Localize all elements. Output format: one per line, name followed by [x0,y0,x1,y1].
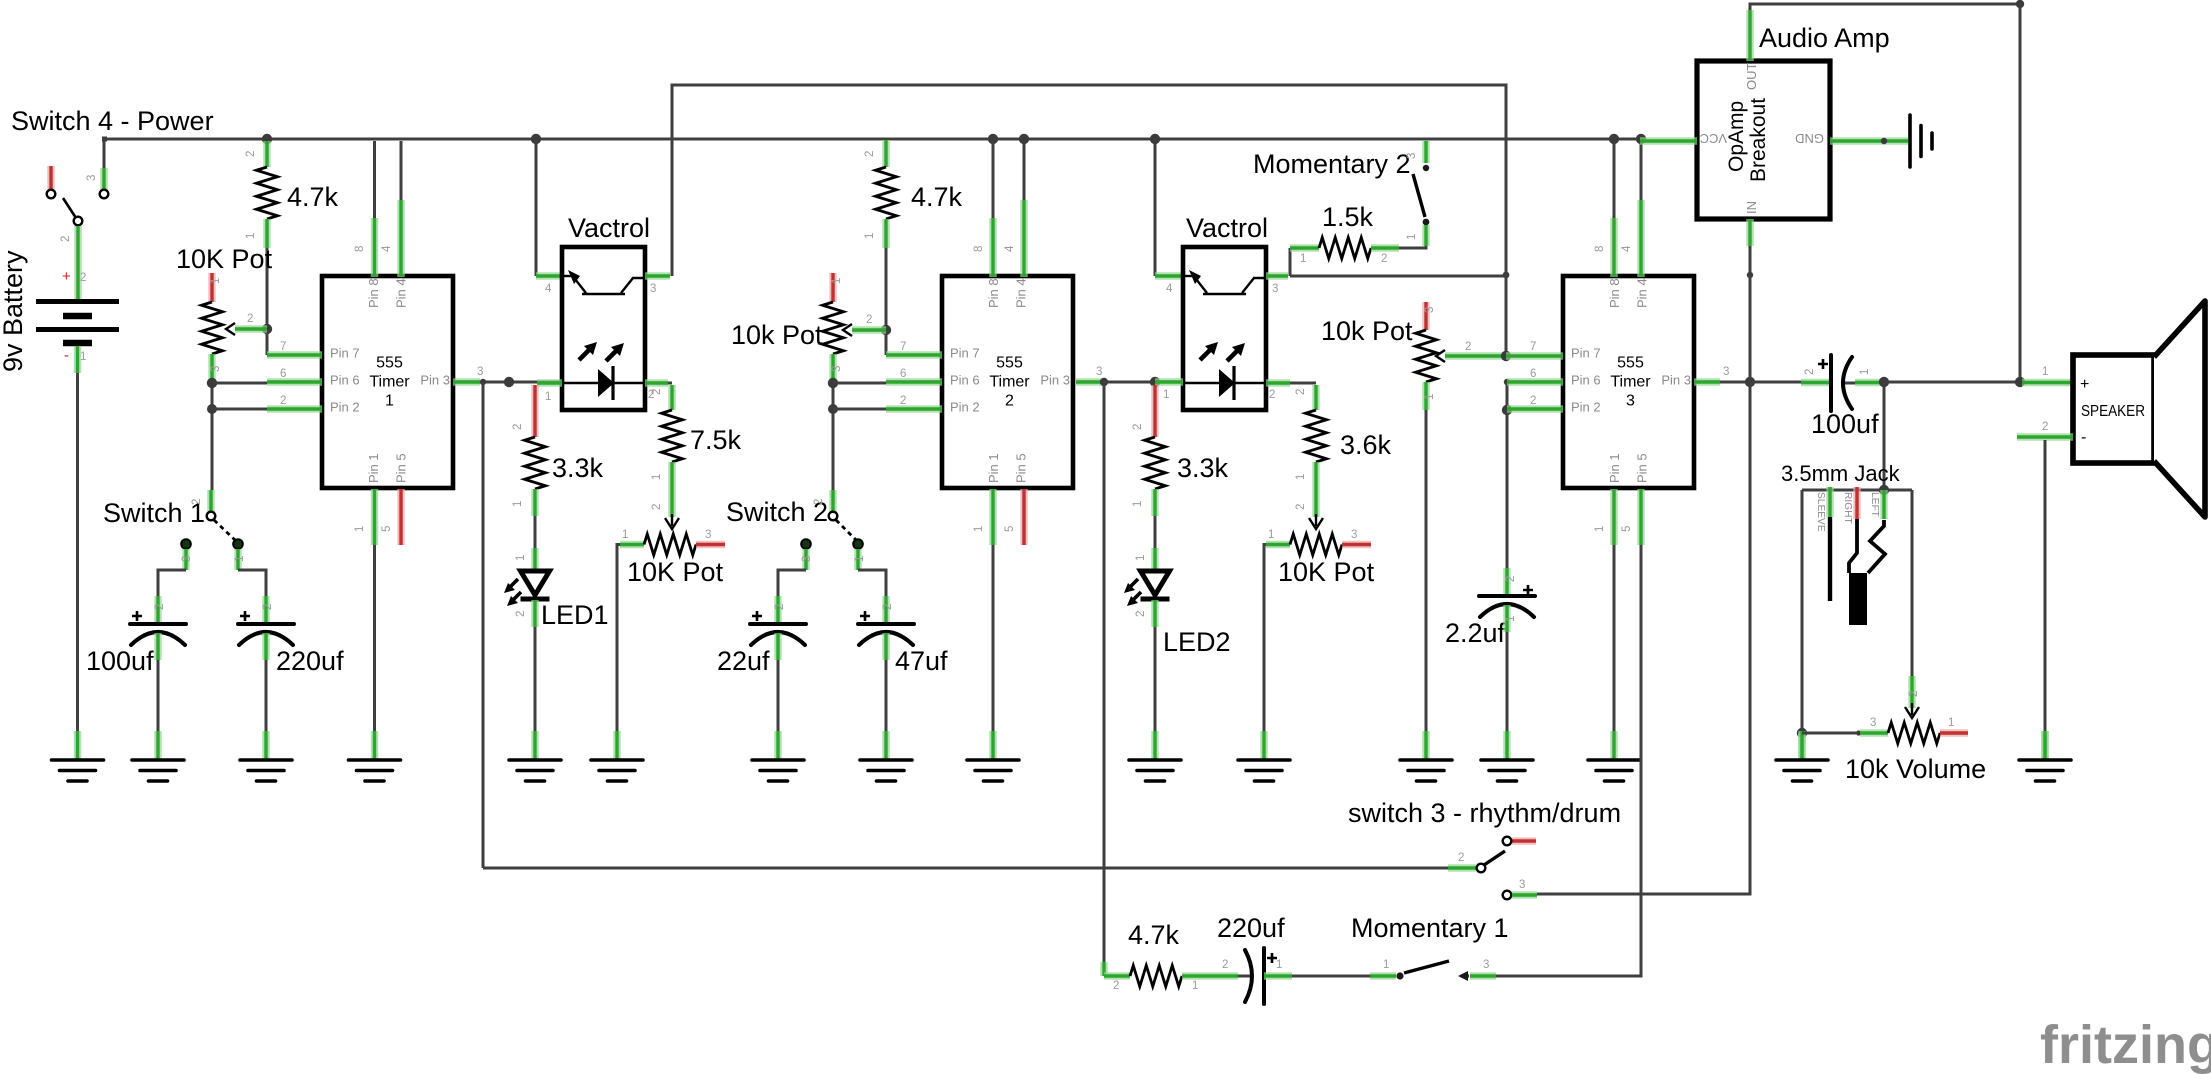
LED LED2 symbol [1124,571,1170,606]
pin timer3 pin5 to momentary1 [1637,489,1645,545]
wire to pin2 [212,408,267,411]
node rail timer3 pin4 [1636,134,1646,144]
svg-text:Pin 4: Pin 4 [1014,278,1029,308]
svg-text:Pin 1: Pin 1 [986,453,1001,483]
svg-text:1: 1 [973,526,985,532]
wire jack bus [1802,489,1912,492]
LED LED1 symbol [504,571,550,606]
svg-text:2: 2 [80,272,86,284]
wire P4 pin1 to ground [1264,545,1266,732]
svg-text:47uf: 47uf [895,646,948,676]
svg-text:2: 2 [864,151,876,157]
svg-text:3: 3 [1483,959,1489,971]
svg-text:+: + [62,268,71,285]
wiper P3 [843,324,852,336]
pin timer1 pin5 unconnected [397,489,405,545]
wire sleeve to ground node [1801,490,1804,733]
svg-text:3: 3 [210,366,222,372]
svg-text:4: 4 [1621,245,1633,252]
svg-text:VCC: VCC [1700,131,1727,146]
svg-text:1.5k: 1.5k [1322,202,1374,232]
wire timer3 pin5 down to momentary1 [1496,545,1641,976]
svg-text:8: 8 [354,246,366,252]
wire to timer1 pin7 [266,329,269,355]
node rail timer3 pin8 [1609,134,1619,144]
capacitor C2 plates [238,611,294,645]
wire LED1 to ground [534,627,537,731]
resistor P2 zigzag [644,534,696,555]
wire switch1 to C1 [158,570,186,596]
svg-text:2: 2 [651,504,663,510]
svg-text:3: 3 [1626,393,1635,410]
svg-text:Pin 8: Pin 8 [1607,278,1622,308]
wire vactrol2 pin4 to rail [1150,134,1160,144]
wiper P5 [1436,350,1445,362]
svg-text:2: 2 [1381,253,1387,265]
ground timer3 pin1 [1588,731,1640,781]
svg-text:Switch 1: Switch 1 [103,498,205,528]
wire switch2 to C4 [858,570,886,596]
capacitor C1 100uf [154,596,162,623]
resistor R4 4.7k [882,140,890,167]
svg-text:6: 6 [280,368,286,380]
svg-text:8: 8 [973,246,985,252]
wire timer2 pin3 to vactrol2 [1104,381,1155,384]
svg-text:2: 2 [262,604,274,610]
svg-text:Vactrol: Vactrol [568,213,650,243]
svg-text:IN: IN [1744,201,1759,214]
wire timer3 pin6-pin2-cap chain [1504,379,1510,385]
ground P2 [591,731,643,781]
svg-text:10k Pot: 10k Pot [731,320,823,350]
pin jack RIGHT [1853,487,1861,519]
node speaker plus [2015,377,2025,387]
svg-text:3: 3 [477,366,483,378]
svg-text:Pin 7: Pin 7 [330,346,360,361]
svg-text:1: 1 [1135,555,1147,561]
pin opamp OUT wire to speaker [1746,10,1754,61]
wire R1 to pot wiper node [266,248,269,329]
svg-text:1: 1 [1859,369,1871,375]
svg-text:10k Volume: 10k Volume [1845,754,1986,784]
node timer1 pin2 junction [207,404,217,414]
svg-text:1: 1 [1163,389,1169,401]
svg-text:2: 2 [1465,341,1471,353]
wire to pin6 [833,382,886,385]
wire pin3 to vactrol1 [480,381,563,384]
pin timer2 pin7 [886,351,942,359]
svg-text:1: 1 [1268,529,1274,541]
op-amp U3 555 Timer 3 [1563,276,1694,488]
pin timer1 pin1 to ground [371,489,379,545]
svg-text:1: 1 [864,233,876,239]
svg-text:2: 2 [651,389,663,395]
wire switch1 to C2 [238,570,266,596]
potentiometer P4 10K Pot [1266,541,1290,549]
svg-text:Timer: Timer [1610,374,1651,391]
svg-text:220uf: 220uf [276,646,344,676]
wire vactrol1 pin2 corner [668,382,672,385]
ground opamp rotated [1910,115,1932,167]
svg-text:Momentary 2: Momentary 2 [1253,149,1411,179]
wire to volume pin3 [1802,732,1856,735]
capacitor C5 2.2uf [1503,568,1511,595]
ground LED2 [1129,731,1181,781]
jack plug body [1849,573,1867,625]
svg-text:2: 2 [247,313,253,325]
wire pot1 node to timer1 pin6/pin2/switch1 [211,383,214,490]
svg-text:Breakout: Breakout [1747,98,1770,182]
svg-text:2: 2 [813,499,825,505]
svg-text:2: 2 [1135,611,1147,617]
svg-text:10k Pot: 10k Pot [1321,316,1413,346]
wire top signal bus vactrol1 pin3 to timer3 [672,85,1506,276]
svg-text:5: 5 [1004,526,1016,532]
svg-text:1: 1 [1300,253,1306,265]
wire timer2 pin3 down to R8 [1103,382,1106,962]
pin timer3 pin1 to ground [1610,489,1618,545]
svg-text:4: 4 [545,283,552,295]
svg-text:1: 1 [245,233,257,239]
svg-text:Pin 6: Pin 6 [330,373,360,388]
svg-text:LEFT: LEFT [1869,492,1880,517]
svg-text:GND: GND [1795,131,1824,146]
svg-text:Pin 5: Pin 5 [394,453,409,483]
svg-text:SPEAKER: SPEAKER [2081,403,2145,420]
svg-text:5: 5 [381,526,393,532]
ground timer2 pin1 [967,731,1019,781]
svg-text:1: 1 [831,278,843,284]
svg-text:100uf: 100uf [1811,409,1879,439]
svg-text:Momentary 1: Momentary 1 [1351,913,1509,943]
svg-text:2: 2 [1222,959,1228,971]
svg-text:Switch 4 - Power: Switch 4 - Power [11,106,214,136]
ground C2 [240,731,292,781]
ground C3 [752,731,804,781]
wire C5 to ground [1506,632,1509,731]
svg-text:1: 1 [622,529,628,541]
pin speaker minus [2017,433,2073,441]
node timer2 pin2 junction [828,404,838,414]
svg-text:2: 2 [1269,389,1275,401]
svg-text:3.6k: 3.6k [1340,430,1392,460]
svg-text:3: 3 [801,556,813,562]
svg-text:6: 6 [1530,368,1536,380]
svg-text:3: 3 [650,283,656,295]
ground C1 [132,731,184,781]
svg-text:10K Pot: 10K Pot [1278,557,1375,587]
svg-text:OpAmp: OpAmp [1725,101,1748,172]
svg-text:9v Battery: 9v Battery [0,250,28,372]
pin timer3 pin3 output [1694,378,1720,386]
svg-text:2: 2 [191,499,203,505]
speaker SPK1 [2022,379,2073,387]
wire R5 to momentary2 [1399,246,1426,248]
capacitor C3 plates [750,611,806,645]
ground C5 [1481,731,1533,781]
svg-text:4.7k: 4.7k [287,182,339,212]
svg-text:3: 3 [1723,366,1729,378]
wire IN down [1749,246,1752,275]
resistor P5 zigzag [1416,330,1437,382]
svg-text:2: 2 [1295,389,1307,395]
wire switch2 to C3 [778,570,806,596]
node jack junction [1879,485,1889,495]
ground battery [52,731,104,781]
svg-text:RIGHT: RIGHT [1842,492,1853,524]
wire IN to output node [1749,275,1752,382]
node rail junction R1 [262,134,272,144]
svg-text:2: 2 [1295,504,1307,510]
svg-text:1: 1 [354,526,366,532]
pin timer3 pin2 [1507,405,1563,413]
capacitor C2 220uf [262,596,270,623]
ground jack [1776,731,1828,781]
wire P5 to ground [1425,410,1428,731]
svg-text:2: 2 [154,604,166,610]
node timer2 pin6 junction [828,378,838,388]
svg-text:Vactrol: Vactrol [1186,213,1268,243]
pin jack LEFT [1880,490,1888,519]
svg-text:1: 1 [1406,234,1418,240]
ground speaker [2019,731,2071,781]
pin timer1 pin7 [267,351,322,359]
svg-text:4: 4 [381,245,393,252]
svg-text:Pin 1: Pin 1 [366,453,381,483]
potentiometer P6 10k Volume [1856,730,1861,735]
wiper arrow to pot P4 [1312,490,1320,517]
wire to speaker [1884,381,2020,384]
pin vactrol1 pin1 [537,379,562,387]
wire battery plus [74,252,82,299]
svg-text:switch 3 - rhythm/drum: switch 3 - rhythm/drum [1348,798,1621,828]
svg-text:Pin 3: Pin 3 [1661,373,1691,388]
svg-text:5: 5 [1621,526,1633,532]
node timer1 pin6 junction [207,378,217,388]
svg-text:fritzing: fritzing [2040,1015,2211,1074]
svg-text:3: 3 [1351,529,1357,541]
svg-text:100uf: 100uf [86,646,154,676]
svg-text:Pin 6: Pin 6 [1571,373,1601,388]
wire to pin2 [833,408,886,411]
svg-text:Pin 1: Pin 1 [1607,453,1622,483]
pin timer2 pin1 to ground [989,489,997,545]
capacitor C5 plates [1479,585,1535,617]
LED1 [531,548,539,571]
wire R4 to wiper node [885,248,888,330]
wire to timer2 pin7 [885,330,888,355]
node out corner [2016,0,2024,8]
pin opamp IN [1746,219,1754,246]
svg-text:Timer: Timer [369,374,410,391]
node timer3 pin2 junction [1502,405,1512,415]
svg-text:Pin 5: Pin 5 [1014,453,1029,483]
wire battery minus to ground [74,346,82,373]
node wiper junction 2 [881,325,891,335]
svg-text:1: 1 [651,474,663,480]
svg-text:Pin 6: Pin 6 [950,373,980,388]
svg-text:1: 1 [1192,980,1198,992]
svg-text:Pin 8: Pin 8 [366,278,381,308]
pin opamp VCC to rail [1640,137,1697,145]
resistor R3 zigzag [662,410,683,462]
svg-text:3: 3 [181,556,193,562]
svg-text:1: 1 [2042,366,2048,378]
wire vactrol1 pin4 to rail [531,134,541,144]
svg-text:7.5k: 7.5k [690,425,742,455]
wire C2 to ground [265,660,268,731]
svg-text:3: 3 [1096,366,1102,378]
svg-text:Pin 3: Pin 3 [1040,373,1070,388]
wire LED2 to ground [1154,627,1157,731]
svg-text:10K Pot: 10K Pot [627,557,724,587]
svg-text:1: 1 [545,391,551,403]
wire vactrol2 pin3 node [1290,275,1506,278]
svg-text:2: 2 [1132,424,1144,430]
svg-text:4: 4 [1166,283,1173,295]
svg-text:1: 1 [1424,394,1436,400]
svg-text:1: 1 [1505,616,1517,622]
wire C7 to momentary1 [1292,975,1370,978]
svg-text:Pin 4: Pin 4 [394,278,409,308]
ground C4 [860,731,912,781]
svg-text:7: 7 [1530,341,1536,353]
svg-text:Pin 7: Pin 7 [950,346,980,361]
wire R2 to LED1 [534,516,537,548]
svg-text:3.3k: 3.3k [552,453,604,483]
svg-text:555: 555 [1617,355,1644,372]
svg-text:555: 555 [376,355,403,372]
wire out down to speaker [2019,4,2022,382]
svg-text:2: 2 [866,314,872,326]
svg-text:Pin 8: Pin 8 [986,278,1001,308]
switch S4 power [47,166,55,189]
svg-text:1: 1 [1594,526,1606,532]
svg-text:2: 2 [1804,369,1816,375]
wire output node to jack [1883,382,1886,490]
svg-text:1: 1 [1132,501,1144,507]
svg-text:3.5mm Jack: 3.5mm Jack [1781,461,1901,486]
wire timer1 pin3 down to switch3 throw2 line [482,382,485,868]
pin timer2 pin2 [886,405,942,413]
svg-text:Pin 3: Pin 3 [420,373,450,388]
resistor R2 zigzag [525,437,546,489]
node volume ground [1797,728,1807,738]
svg-text:8: 8 [1594,246,1606,252]
LED2 [1151,548,1159,571]
resistor R5 zigzag [1319,238,1371,259]
node wiper junction 1 [262,324,272,334]
optocoupler VT2 Vactrol [1183,247,1266,410]
pin jack SLEEVE [1826,487,1834,517]
wire jack to volume wiper [1911,490,1914,676]
svg-text:3: 3 [1424,307,1436,313]
svg-text:Timer: Timer [989,374,1030,391]
pin timer3 pin7 [1506,352,1563,360]
capacitor C4 47uf [882,596,890,623]
svg-text:SLEEVE: SLEEVE [1815,492,1826,532]
wire IN node down to switch3 throw3 [1537,382,1750,894]
svg-text:1: 1 [385,393,394,410]
resistor R4 zigzag [876,167,897,219]
resistor P6 zigzag [1888,723,1940,744]
node timer1 output [504,377,514,387]
op-amp U2 555 Timer 2 [942,276,1073,488]
svg-text:Pin 2: Pin 2 [1571,400,1601,415]
svg-text:4: 4 [1004,245,1016,252]
capacitor C6 100uf output [1750,381,1801,384]
wire to pin6 [212,382,267,385]
svg-text:2: 2 [1005,393,1014,410]
svg-text:Pin 2: Pin 2 [330,400,360,415]
resistor R6 3.3k [1151,385,1159,437]
op-amp U1 555 Timer 1 [322,276,453,488]
svg-text:10K Pot: 10K Pot [176,244,273,274]
pin timer1 pin6 [267,378,322,386]
svg-text:3: 3 [86,175,98,181]
svg-text:555: 555 [996,355,1023,372]
resistor R7 zigzag [1306,410,1327,462]
wire timer3 pin3 to node [1720,381,1750,384]
svg-text:Pin 4: Pin 4 [1635,278,1650,308]
svg-text:2: 2 [245,151,257,157]
svg-text:2: 2 [774,604,786,610]
resistor R3 7.5k [668,385,676,410]
svg-text:2: 2 [1505,576,1517,582]
resistor R7 3.6k [1312,385,1320,410]
svg-text:Pin 2: Pin 2 [950,400,980,415]
wire timer3 pin7 node [1503,272,1510,279]
capacitor C3 22uf [774,596,782,623]
pin timer2 pin6 [886,378,942,386]
svg-text:2: 2 [1458,852,1464,864]
svg-text:LED2: LED2 [1163,627,1231,657]
svg-text:4.7k: 4.7k [1128,920,1180,950]
svg-text:2: 2 [515,611,527,617]
pin vactrol2 pin3 [1266,272,1288,280]
svg-text:Pin 5: Pin 5 [1635,453,1650,483]
wire timer1 pin8 to rail [373,141,376,218]
svg-text:2: 2 [1530,395,1536,407]
svg-text:Pin 7: Pin 7 [1571,346,1601,361]
node vactrol2 pin1 junction [1150,377,1160,387]
capacitor C4 plates [858,611,914,645]
wire R6 to LED2 [1154,516,1157,548]
svg-text:3.3k: 3.3k [1177,453,1229,483]
svg-text:3: 3 [705,529,711,541]
resistor R6 zigzag [1145,437,1166,489]
node timer3 pin7 junction [1501,351,1511,361]
wire timer1 pin4 to rail [400,141,403,200]
svg-text:22uf: 22uf [717,646,770,676]
svg-text:Audio Amp: Audio Amp [1759,23,1890,53]
svg-text:1: 1 [1276,959,1282,971]
pin timer1 pin2 [267,405,322,413]
svg-text:3: 3 [1272,283,1278,295]
resistor R2 3.3k [531,385,539,437]
pin timer2 pin3 output [1076,378,1102,386]
pin timer2 pin5 unconnected [1020,489,1028,545]
svg-text:2: 2 [2042,421,2048,433]
svg-text:3: 3 [1870,717,1876,729]
wire P2 pin1 to ground [617,545,620,732]
svg-text:6: 6 [900,368,906,380]
optocoupler VT1 Vactrol [562,247,645,410]
svg-text:LED1: LED1 [541,600,609,630]
resistor P4 zigzag [1290,534,1342,555]
ground timer1 pin1 [349,731,401,781]
ground P4 [1238,731,1290,781]
